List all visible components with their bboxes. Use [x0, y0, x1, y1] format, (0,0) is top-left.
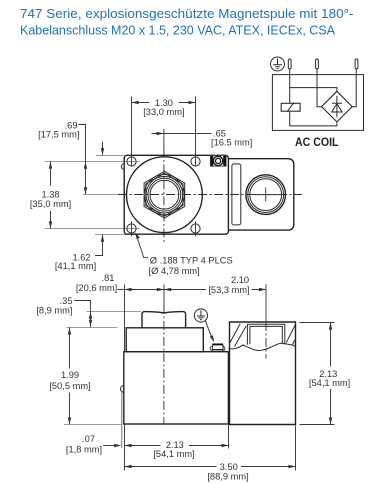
svg-text:[53,3 mm]: [53,3 mm]	[208, 285, 249, 295]
svg-text:[54,1 mm]: [54,1 mm]	[309, 378, 350, 388]
svg-text:[35,0 mm]: [35,0 mm]	[30, 199, 71, 209]
svg-text:[Ø 4,78 mm]: [Ø 4,78 mm]	[149, 266, 200, 276]
svg-text:[54,1 mm]: [54,1 mm]	[153, 449, 194, 459]
svg-text:[1,8 mm]: [1,8 mm]	[66, 445, 102, 455]
svg-text:[8,9 mm]: [8,9 mm]	[36, 306, 72, 316]
svg-text:.07: .07	[82, 434, 95, 444]
svg-text:3.50: 3.50	[220, 462, 238, 472]
svg-text:1.38: 1.38	[41, 189, 59, 199]
svg-text:.35: .35	[60, 296, 73, 306]
svg-text:Ø .188 TYP 4 PLCS: Ø .188 TYP 4 PLCS	[150, 255, 233, 265]
svg-text:[20,6 mm]: [20,6 mm]	[76, 283, 117, 293]
svg-text:Kabelanschluss M20 x 1.5, 230: Kabelanschluss M20 x 1.5, 230 VAC, ATEX,…	[20, 23, 336, 37]
svg-text:[41,1 mm]: [41,1 mm]	[55, 261, 96, 271]
svg-text:[33,0 mm]: [33,0 mm]	[143, 107, 184, 117]
svg-text:[17,5 mm]: [17,5 mm]	[38, 130, 79, 140]
svg-text:1.99: 1.99	[61, 370, 79, 380]
svg-text:[50,5 mm]: [50,5 mm]	[49, 381, 90, 391]
svg-text:[88,9 mm]: [88,9 mm]	[207, 472, 248, 482]
svg-text:[16.5 mm]: [16.5 mm]	[211, 137, 252, 147]
svg-text:.81: .81	[102, 273, 115, 283]
svg-text:AC COIL: AC COIL	[295, 136, 339, 149]
svg-text:747 Serie, explosionsgeschützt: 747 Serie, explosionsgeschützte Magnetsp…	[20, 7, 354, 21]
svg-text:2.10: 2.10	[231, 275, 249, 285]
